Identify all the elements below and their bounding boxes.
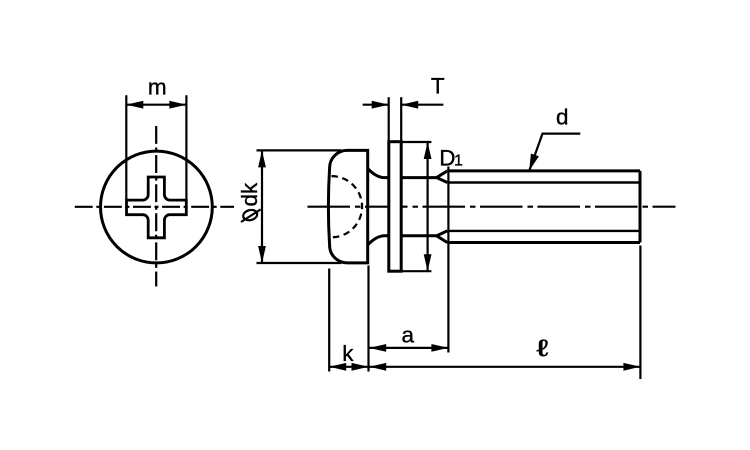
svg-text:1: 1 (454, 153, 463, 170)
svg-text:dk: dk (237, 182, 262, 207)
svg-text:m: m (148, 75, 167, 100)
svg-text:ℓ: ℓ (537, 335, 549, 361)
svg-text:D: D (439, 145, 455, 170)
svg-text:d: d (556, 104, 569, 129)
svg-text:a: a (402, 323, 415, 348)
svg-text:k: k (342, 341, 354, 366)
svg-text:T: T (431, 73, 445, 98)
